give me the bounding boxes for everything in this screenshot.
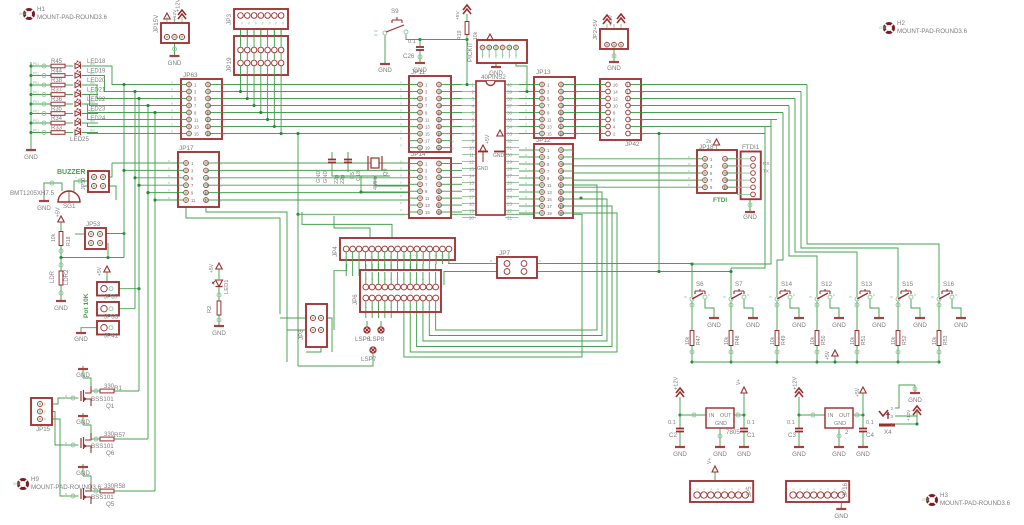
svg-text:22: 22 bbox=[507, 209, 513, 214]
svg-text:H9: H9 bbox=[31, 476, 39, 483]
svg-text:n: n bbox=[223, 98, 225, 102]
svg-text:1: 1 bbox=[890, 422, 893, 427]
svg-text:p: p bbox=[44, 417, 46, 421]
svg-text:RX: RX bbox=[763, 161, 769, 166]
svg-text:n: n bbox=[525, 102, 527, 106]
svg-text:S15: S15 bbox=[902, 281, 914, 288]
svg-text:GND: GND bbox=[954, 322, 968, 329]
svg-text:n: n bbox=[223, 133, 225, 137]
svg-text:+5V: +5V bbox=[56, 207, 62, 217]
svg-text:1: 1 bbox=[471, 83, 474, 88]
svg-text:11: 11 bbox=[408, 254, 412, 258]
svg-text:in: in bbox=[849, 295, 852, 299]
svg-text:C3: C3 bbox=[788, 432, 796, 439]
svg-text:0.1: 0.1 bbox=[787, 420, 795, 426]
svg-text:n: n bbox=[576, 119, 578, 123]
svg-text:3: 3 bbox=[890, 414, 893, 419]
svg-text:n: n bbox=[400, 208, 402, 212]
svg-text:OUT: OUT bbox=[720, 413, 732, 419]
svg-text:GND: GND bbox=[834, 513, 848, 520]
svg-text:15: 15 bbox=[194, 132, 199, 137]
svg-text:o: o bbox=[747, 293, 749, 297]
svg-text:C26: C26 bbox=[403, 53, 415, 60]
svg-text:MOUNT-PAD-ROUND3.6: MOUNT-PAD-ROUND3.6 bbox=[897, 28, 968, 35]
svg-text:JP41: JP41 bbox=[104, 333, 119, 340]
svg-text:C18: C18 bbox=[356, 171, 362, 181]
svg-text:S9: S9 bbox=[391, 8, 399, 15]
svg-text:11: 11 bbox=[194, 118, 199, 123]
svg-text:X4: X4 bbox=[884, 429, 892, 436]
svg-text:n: n bbox=[525, 109, 527, 113]
svg-text:OUT: OUT bbox=[839, 413, 851, 419]
svg-text:n: n bbox=[168, 159, 170, 163]
svg-text:n: n bbox=[400, 123, 402, 127]
svg-text:10k: 10k bbox=[724, 336, 730, 345]
svg-text:n: n bbox=[400, 109, 402, 113]
svg-text:26: 26 bbox=[507, 181, 513, 186]
svg-text:GND: GND bbox=[872, 322, 886, 329]
svg-text:p: p bbox=[242, 21, 244, 25]
svg-text:+5V: +5V bbox=[209, 263, 215, 273]
svg-text:JP15V: JP15V bbox=[153, 14, 160, 33]
svg-text:LSP7: LSP7 bbox=[361, 356, 377, 363]
svg-text:12: 12 bbox=[469, 160, 475, 165]
svg-text:17: 17 bbox=[425, 139, 430, 144]
svg-text:GND: GND bbox=[832, 451, 846, 458]
svg-text:10: 10 bbox=[437, 111, 442, 116]
svg-text:36: 36 bbox=[507, 111, 513, 116]
svg-text:n: n bbox=[452, 98, 454, 102]
svg-text:in: in bbox=[769, 295, 772, 299]
svg-text:GND: GND bbox=[834, 421, 846, 427]
svg-text:16: 16 bbox=[206, 132, 211, 137]
svg-text:3: 3 bbox=[471, 97, 474, 102]
svg-text:17: 17 bbox=[547, 204, 552, 209]
svg-text:GND: GND bbox=[378, 67, 392, 74]
svg-text:JP4: JP4 bbox=[332, 246, 339, 257]
svg-text:16: 16 bbox=[437, 210, 442, 215]
svg-text:S13: S13 bbox=[861, 281, 873, 288]
svg-text:P01: P01 bbox=[33, 119, 39, 123]
svg-text:21: 21 bbox=[507, 216, 513, 221]
svg-text:BSS101: BSS101 bbox=[91, 443, 114, 450]
svg-text:n: n bbox=[688, 169, 690, 173]
svg-text:R58: R58 bbox=[114, 483, 126, 490]
svg-text:13: 13 bbox=[194, 125, 199, 130]
svg-text:18: 18 bbox=[559, 204, 564, 209]
svg-text:BSS101: BSS101 bbox=[91, 396, 114, 403]
svg-text:JP42: JP42 bbox=[625, 141, 640, 148]
svg-text:11: 11 bbox=[469, 153, 474, 158]
svg-text:P01: P01 bbox=[33, 72, 39, 76]
svg-text:GND: GND bbox=[24, 154, 38, 161]
svg-text:n: n bbox=[223, 119, 225, 123]
svg-text:n: n bbox=[576, 112, 578, 116]
svg-text:11: 11 bbox=[627, 97, 632, 102]
svg-text:n: n bbox=[452, 84, 454, 88]
svg-text:R34: R34 bbox=[51, 116, 63, 122]
svg-text:10: 10 bbox=[206, 111, 211, 116]
svg-text:C1: C1 bbox=[747, 432, 755, 439]
svg-text:n: n bbox=[525, 174, 527, 178]
svg-text:R36: R36 bbox=[51, 97, 63, 103]
svg-text:R50: R50 bbox=[821, 335, 827, 345]
svg-text:GND: GND bbox=[54, 305, 68, 312]
svg-text:P01: P01 bbox=[33, 110, 39, 114]
svg-text:30: 30 bbox=[507, 153, 513, 158]
svg-text:n: n bbox=[642, 105, 644, 109]
svg-text:BMT1205XH7.5: BMT1205XH7.5 bbox=[10, 190, 55, 197]
svg-text:n: n bbox=[171, 123, 173, 127]
svg-text:10: 10 bbox=[204, 191, 209, 196]
svg-text:16: 16 bbox=[559, 132, 564, 137]
svg-text:BSS101: BSS101 bbox=[91, 494, 114, 501]
svg-text:+5V: +5V bbox=[825, 350, 831, 360]
svg-text:22p: 22p bbox=[340, 175, 346, 184]
svg-text:15: 15 bbox=[425, 210, 430, 215]
svg-text:GND: GND bbox=[832, 322, 846, 329]
svg-text:25: 25 bbox=[507, 188, 513, 193]
svg-text:SG1: SG1 bbox=[63, 203, 76, 210]
svg-text:14: 14 bbox=[613, 90, 618, 95]
svg-text:R51: R51 bbox=[861, 335, 867, 345]
svg-text:n: n bbox=[400, 194, 402, 198]
svg-text:n: n bbox=[168, 166, 170, 170]
svg-text:16: 16 bbox=[469, 188, 475, 193]
svg-text:BUZZER: BUZZER bbox=[57, 169, 85, 176]
svg-text:C2: C2 bbox=[669, 432, 677, 439]
svg-text:led: led bbox=[90, 129, 95, 133]
svg-text:10k: 10k bbox=[685, 336, 691, 345]
svg-text:9: 9 bbox=[471, 139, 474, 144]
svg-text:+12V: +12V bbox=[793, 377, 799, 390]
svg-text:n: n bbox=[452, 140, 454, 144]
svg-text:n: n bbox=[525, 116, 527, 120]
svg-text:20: 20 bbox=[469, 216, 475, 221]
svg-text:n: n bbox=[642, 133, 644, 137]
svg-text:10k: 10k bbox=[891, 336, 897, 345]
svg-text:10k: 10k bbox=[850, 336, 856, 345]
svg-text:33: 33 bbox=[507, 132, 513, 137]
svg-text:JP6: JP6 bbox=[352, 294, 359, 305]
svg-text:in: in bbox=[931, 295, 934, 299]
svg-text:S16: S16 bbox=[943, 281, 955, 288]
svg-text:GND: GND bbox=[168, 60, 182, 67]
svg-text:GND2: GND2 bbox=[493, 153, 507, 159]
svg-text:14: 14 bbox=[559, 190, 564, 195]
svg-text:in: in bbox=[809, 295, 812, 299]
svg-text:18: 18 bbox=[437, 139, 442, 144]
svg-text:7: 7 bbox=[471, 125, 474, 130]
svg-text:37: 37 bbox=[507, 104, 513, 109]
svg-text:LDR2: LDR2 bbox=[64, 269, 70, 285]
svg-text:12: 12 bbox=[437, 196, 442, 201]
svg-text:+5V: +5V bbox=[485, 134, 491, 144]
svg-text:n: n bbox=[400, 130, 402, 134]
svg-text:led: led bbox=[90, 119, 95, 123]
svg-text:GND: GND bbox=[746, 322, 760, 329]
svg-text:R48: R48 bbox=[735, 335, 741, 345]
svg-text:JP37: JP37 bbox=[104, 294, 119, 301]
svg-text:2: 2 bbox=[890, 406, 893, 411]
svg-text:n: n bbox=[168, 181, 170, 185]
svg-text:n: n bbox=[525, 88, 527, 92]
svg-text:+12V: +12V bbox=[906, 409, 912, 421]
svg-text:JP2+5V: JP2+5V bbox=[593, 19, 599, 40]
svg-text:n: n bbox=[525, 167, 527, 171]
svg-text:n: n bbox=[171, 81, 173, 85]
svg-text:15: 15 bbox=[626, 83, 631, 88]
svg-text:-: - bbox=[45, 178, 46, 182]
svg-text:12: 12 bbox=[613, 97, 618, 102]
svg-text:GND: GND bbox=[76, 419, 90, 426]
svg-text:34: 34 bbox=[507, 125, 513, 130]
svg-text:Q9: Q9 bbox=[383, 169, 389, 176]
svg-text:n: n bbox=[400, 160, 402, 164]
svg-text:n: n bbox=[688, 162, 690, 166]
svg-text:7: 7 bbox=[383, 256, 387, 258]
svg-text:n: n bbox=[220, 177, 222, 181]
svg-text:n: n bbox=[452, 119, 454, 123]
svg-text:n: n bbox=[168, 196, 170, 200]
svg-text:10: 10 bbox=[723, 185, 728, 190]
svg-text:12: 12 bbox=[559, 183, 564, 188]
svg-text:27: 27 bbox=[507, 174, 513, 179]
svg-text:JP53: JP53 bbox=[86, 221, 101, 228]
svg-text:14: 14 bbox=[559, 125, 564, 130]
svg-text:Pot 10K: Pot 10K bbox=[83, 293, 90, 318]
svg-text:JP19: JP19 bbox=[226, 57, 233, 72]
svg-text:R53: R53 bbox=[943, 335, 949, 345]
svg-text:n: n bbox=[400, 180, 402, 184]
svg-text:n: n bbox=[576, 126, 578, 130]
svg-text:JP14: JP14 bbox=[411, 151, 426, 158]
svg-text:20: 20 bbox=[437, 146, 442, 151]
svg-text:GND: GND bbox=[413, 67, 427, 74]
svg-text:330: 330 bbox=[104, 484, 115, 490]
svg-text:GND: GND bbox=[607, 65, 621, 72]
svg-text:n: n bbox=[223, 126, 225, 130]
svg-text:JP35: JP35 bbox=[104, 314, 119, 321]
svg-text:n: n bbox=[642, 98, 644, 102]
svg-text:n: n bbox=[525, 95, 527, 99]
svg-text:+5V: +5V bbox=[855, 387, 861, 397]
svg-text:13: 13 bbox=[469, 167, 475, 172]
svg-text:n: n bbox=[452, 133, 454, 137]
svg-text:MOUNT-PAD-ROUND3.6: MOUNT-PAD-ROUND3.6 bbox=[31, 484, 102, 491]
svg-text:10: 10 bbox=[469, 146, 475, 151]
svg-text:n: n bbox=[171, 116, 173, 120]
svg-text:n: n bbox=[400, 137, 402, 141]
svg-text:JP12: JP12 bbox=[536, 137, 551, 144]
svg-text:n: n bbox=[400, 173, 402, 177]
svg-text:2: 2 bbox=[351, 256, 355, 258]
svg-text:19: 19 bbox=[547, 211, 552, 216]
svg-text:S7: S7 bbox=[735, 281, 743, 288]
svg-text:H3: H3 bbox=[940, 492, 948, 499]
svg-text:2: 2 bbox=[471, 90, 474, 95]
svg-text:24: 24 bbox=[507, 195, 513, 200]
svg-text:R57: R57 bbox=[114, 432, 126, 439]
svg-text:o: o bbox=[708, 293, 710, 297]
svg-text:n: n bbox=[223, 105, 225, 109]
svg-text:18: 18 bbox=[469, 202, 475, 207]
svg-text:n: n bbox=[171, 102, 173, 106]
svg-text:10: 10 bbox=[613, 104, 618, 109]
svg-text:n: n bbox=[220, 199, 222, 203]
svg-text:5: 5 bbox=[471, 111, 474, 116]
svg-text:LSP8: LSP8 bbox=[369, 336, 385, 343]
svg-text:0.1: 0.1 bbox=[668, 420, 676, 426]
svg-text:10: 10 bbox=[402, 254, 406, 258]
svg-text:R37: R37 bbox=[51, 87, 63, 93]
svg-text:n: n bbox=[525, 153, 527, 157]
svg-text:n: n bbox=[525, 123, 527, 127]
svg-text:n: n bbox=[576, 98, 578, 102]
svg-text:S12: S12 bbox=[821, 281, 833, 288]
svg-text:n: n bbox=[400, 88, 402, 92]
svg-text:0.1: 0.1 bbox=[866, 420, 874, 426]
svg-text:n: n bbox=[642, 84, 644, 88]
svg-text:n: n bbox=[525, 209, 527, 213]
svg-text:39: 39 bbox=[507, 90, 513, 95]
svg-text:17: 17 bbox=[447, 254, 451, 258]
svg-text:n: n bbox=[171, 88, 173, 92]
svg-text:GND: GND bbox=[74, 336, 88, 343]
svg-text:JP63: JP63 bbox=[183, 72, 198, 79]
svg-text:19: 19 bbox=[425, 146, 430, 151]
svg-text:11: 11 bbox=[191, 198, 196, 203]
svg-text:led: led bbox=[90, 110, 95, 114]
svg-text:GND: GND bbox=[323, 171, 329, 183]
svg-text:n: n bbox=[220, 162, 222, 166]
svg-text:5: 5 bbox=[370, 256, 374, 258]
svg-text:P01: P01 bbox=[33, 62, 39, 66]
svg-text:Q6: Q6 bbox=[106, 450, 115, 457]
svg-text:g: g bbox=[65, 394, 67, 398]
svg-text:13: 13 bbox=[425, 203, 430, 208]
svg-text:0.1: 0.1 bbox=[408, 39, 416, 45]
svg-text:4MHz: 4MHz bbox=[373, 175, 379, 190]
svg-text:19: 19 bbox=[469, 209, 475, 214]
svg-text:GND: GND bbox=[922, 498, 930, 502]
svg-text:n: n bbox=[452, 105, 454, 109]
svg-text:+: + bbox=[75, 176, 77, 180]
svg-text:GND: GND bbox=[13, 482, 21, 486]
svg-text:JP16: JP16 bbox=[842, 482, 849, 497]
svg-text:R1: R1 bbox=[114, 385, 122, 392]
svg-text:n: n bbox=[171, 109, 173, 113]
svg-text:P01: P01 bbox=[33, 91, 39, 95]
svg-text:n: n bbox=[688, 176, 690, 180]
svg-text:JP3: JP3 bbox=[226, 14, 233, 25]
svg-text:n: n bbox=[400, 116, 402, 120]
svg-text:R49: R49 bbox=[781, 335, 787, 345]
svg-text:n: n bbox=[525, 146, 527, 150]
svg-text:TX: TX bbox=[763, 169, 769, 174]
svg-text:13: 13 bbox=[626, 90, 631, 95]
svg-text:n: n bbox=[688, 183, 690, 187]
svg-text:2x: 2x bbox=[706, 139, 712, 145]
svg-text:p: p bbox=[262, 21, 264, 25]
svg-text:n: n bbox=[220, 169, 222, 173]
svg-text:GND: GND bbox=[792, 451, 806, 458]
svg-text:6: 6 bbox=[376, 256, 380, 258]
svg-text:JP18: JP18 bbox=[699, 144, 714, 151]
svg-text:GND: GND bbox=[316, 171, 322, 183]
svg-text:P01: P01 bbox=[33, 100, 39, 104]
svg-text:10: 10 bbox=[437, 189, 442, 194]
svg-text:LED1: LED1 bbox=[224, 279, 230, 294]
svg-text:H2: H2 bbox=[897, 20, 905, 27]
svg-text:o: o bbox=[833, 293, 835, 297]
svg-text:LED25: LED25 bbox=[70, 136, 89, 143]
svg-text:in: in bbox=[723, 295, 726, 299]
svg-text:11: 11 bbox=[425, 118, 430, 123]
svg-text:S14: S14 bbox=[781, 281, 793, 288]
svg-text:P01: P01 bbox=[33, 129, 39, 133]
svg-text:n: n bbox=[525, 130, 527, 134]
svg-text:n: n bbox=[525, 202, 527, 206]
svg-text:+12V: +12V bbox=[172, 9, 178, 21]
svg-text:R47: R47 bbox=[696, 335, 702, 345]
svg-text:n: n bbox=[576, 105, 578, 109]
svg-text:+12V: +12V bbox=[674, 377, 680, 390]
svg-text:o: o bbox=[793, 293, 795, 297]
svg-text:12: 12 bbox=[206, 118, 211, 123]
svg-text:o: o bbox=[873, 293, 875, 297]
svg-text:p: p bbox=[44, 410, 46, 414]
svg-text:32: 32 bbox=[507, 139, 513, 144]
svg-text:0.1: 0.1 bbox=[747, 420, 755, 426]
svg-text:n: n bbox=[525, 195, 527, 199]
svg-text:R35: R35 bbox=[51, 106, 63, 112]
svg-text:p: p bbox=[248, 21, 250, 25]
svg-text:R33: R33 bbox=[51, 125, 63, 131]
svg-text:R52: R52 bbox=[902, 335, 908, 345]
svg-text:n: n bbox=[400, 166, 402, 170]
svg-text:PICKIT: PICKIT bbox=[467, 42, 474, 62]
svg-text:9: 9 bbox=[396, 256, 400, 258]
svg-text:MOUNT-PAD-ROUND3.6: MOUNT-PAD-ROUND3.6 bbox=[940, 500, 1011, 507]
svg-text:15: 15 bbox=[547, 132, 552, 137]
svg-text:11: 11 bbox=[547, 183, 552, 188]
svg-text:JP8: JP8 bbox=[298, 329, 305, 340]
svg-text:JP50: JP50 bbox=[81, 178, 87, 190]
svg-text:S6: S6 bbox=[696, 281, 704, 288]
svg-text:a: a bbox=[490, 259, 492, 263]
svg-text:31: 31 bbox=[507, 146, 513, 151]
svg-text:+5V: +5V bbox=[455, 11, 461, 20]
svg-text:n: n bbox=[400, 187, 402, 191]
svg-text:R2: R2 bbox=[207, 306, 213, 313]
svg-text:n: n bbox=[223, 91, 225, 95]
svg-text:n: n bbox=[576, 91, 578, 95]
svg-text:R45: R45 bbox=[51, 59, 63, 65]
svg-text:+12V: +12V bbox=[608, 14, 613, 26]
svg-text:16: 16 bbox=[613, 83, 618, 88]
svg-text:n: n bbox=[525, 181, 527, 185]
svg-text:JP5: JP5 bbox=[746, 486, 753, 497]
svg-text:11: 11 bbox=[547, 118, 552, 123]
svg-text:13: 13 bbox=[547, 125, 552, 130]
svg-text:n: n bbox=[642, 119, 644, 123]
svg-text:GND: GND bbox=[713, 451, 727, 458]
svg-text:+5V: +5V bbox=[97, 266, 103, 276]
svg-text:16: 16 bbox=[437, 132, 442, 137]
svg-text:23: 23 bbox=[507, 202, 513, 207]
svg-text:12: 12 bbox=[204, 198, 209, 203]
